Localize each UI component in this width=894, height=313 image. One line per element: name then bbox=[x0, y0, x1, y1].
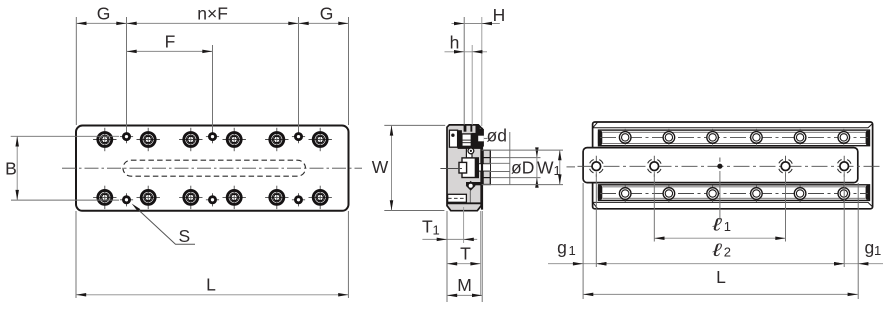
svg-text:h: h bbox=[450, 33, 460, 53]
dimension g1 right bbox=[834, 238, 883, 266]
bottom rail inner edge lines bbox=[603, 186, 866, 188]
counterbore hole A4 bbox=[223, 128, 246, 151]
counterbore hole A2 bbox=[137, 128, 160, 151]
body right edge bbox=[481, 128, 483, 210]
svg-text:g: g bbox=[557, 238, 567, 258]
dimension g1 left bbox=[548, 238, 607, 266]
dimension G left bbox=[76, 4, 126, 132]
dimension F bbox=[127, 32, 213, 132]
counterbore hole A7 bbox=[93, 186, 116, 209]
svg-text:G: G bbox=[97, 4, 111, 24]
center insert bbox=[459, 162, 467, 173]
dimension W bbox=[372, 125, 445, 210]
side block bore (white) bbox=[475, 164, 491, 171]
carriage plate bbox=[583, 148, 858, 183]
rail hole R8 bbox=[663, 185, 675, 202]
carriage centerline bbox=[578, 165, 880, 167]
svg-text:1: 1 bbox=[433, 223, 440, 238]
rail hole R6 bbox=[838, 129, 850, 146]
carriage center point bbox=[717, 164, 722, 169]
plate outline bbox=[76, 126, 349, 211]
side block counterbore lines bbox=[483, 157, 490, 159]
svg-text:1: 1 bbox=[569, 243, 576, 258]
svg-text:B: B bbox=[5, 159, 17, 179]
svg-text:L: L bbox=[206, 274, 216, 294]
dimension B bbox=[5, 136, 119, 200]
carriage hole M1 bbox=[589, 156, 603, 177]
svg-text:n×F: n×F bbox=[197, 4, 228, 24]
bottom rib line bbox=[447, 202, 481, 204]
section body bbox=[447, 125, 481, 211]
svg-text:W: W bbox=[537, 158, 554, 178]
counterbore hole A8 bbox=[137, 186, 160, 209]
leader S bbox=[130, 202, 195, 246]
set screw pocket bbox=[449, 130, 457, 147]
housing top chamfer line bbox=[593, 124, 873, 128]
rail hole R9 bbox=[707, 185, 719, 202]
dimension l1 bbox=[654, 171, 785, 242]
counterbore hole A5 bbox=[265, 128, 288, 151]
small hole S3 bbox=[292, 130, 305, 143]
counterbore hole A12 bbox=[309, 186, 332, 209]
rail hole R1 bbox=[619, 129, 631, 146]
svg-text:T: T bbox=[422, 217, 433, 237]
rail hole R3 bbox=[707, 129, 719, 146]
svg-text:W: W bbox=[372, 157, 389, 177]
upper ledge bbox=[458, 147, 482, 149]
rail hole R11 bbox=[794, 185, 806, 202]
svg-text:H: H bbox=[493, 5, 506, 25]
svg-text:M: M bbox=[457, 275, 472, 295]
upper ball bbox=[468, 148, 474, 154]
dimension h bbox=[445, 33, 488, 125]
svg-text:øD: øD bbox=[511, 158, 534, 178]
bottom rail left end cap bbox=[598, 185, 602, 200]
top rail centerline bbox=[600, 136, 868, 138]
small hole S5 bbox=[206, 193, 219, 206]
hidden screw line bbox=[469, 191, 471, 203]
housing outline bbox=[593, 122, 873, 209]
lower roller bbox=[466, 181, 476, 191]
svg-text:ℓ: ℓ bbox=[712, 240, 724, 260]
dimension n×F bbox=[127, 4, 299, 132]
housing bottom chamfer line bbox=[593, 202, 873, 206]
rail hole R2 bbox=[663, 129, 675, 146]
lower ledge bbox=[466, 182, 481, 185]
rail hole R5 bbox=[794, 129, 806, 146]
svg-text:G: G bbox=[320, 4, 334, 24]
svg-text:L: L bbox=[716, 267, 726, 287]
section centerline tick bbox=[440, 168, 462, 170]
rail hole R4 bbox=[751, 129, 763, 146]
bottom rail centerline bbox=[600, 193, 868, 195]
label ød bbox=[484, 126, 507, 146]
top rail right end cap bbox=[866, 131, 870, 146]
hidden slot (dashed) bbox=[123, 160, 306, 176]
carriage hole M3 bbox=[778, 156, 792, 177]
svg-text:1: 1 bbox=[554, 163, 561, 178]
rail hole R10 bbox=[751, 185, 763, 202]
lower thread hole bbox=[448, 194, 467, 202]
svg-text:ℓ: ℓ bbox=[712, 214, 724, 234]
dimension L (right view) bbox=[583, 183, 858, 299]
cross screw bbox=[462, 134, 471, 146]
svg-text:ød: ød bbox=[487, 126, 507, 146]
center block bbox=[462, 158, 478, 178]
bottom rail body bbox=[599, 185, 870, 201]
counterbore hole A1 bbox=[93, 128, 116, 151]
dimension l2 bbox=[596, 172, 844, 267]
counterbore hole A3 bbox=[179, 128, 202, 151]
counterbore hole A11 bbox=[265, 186, 288, 209]
centerline dash before carriage bbox=[567, 166, 576, 168]
svg-text:S: S bbox=[179, 226, 191, 246]
top rail body bbox=[599, 130, 870, 146]
svg-text:1: 1 bbox=[874, 243, 881, 258]
carriage hole M2 bbox=[647, 156, 661, 177]
top slot bars bbox=[464, 125, 467, 131]
dimension T bbox=[447, 211, 481, 302]
rail hole R12 bbox=[838, 185, 850, 202]
dimension øD bbox=[491, 147, 541, 187]
dimension M bbox=[447, 211, 482, 302]
svg-text:T: T bbox=[460, 244, 471, 264]
svg-text:g: g bbox=[865, 238, 875, 258]
dimension L (left view) bbox=[76, 211, 348, 298]
carriage hole M4 bbox=[837, 156, 851, 177]
dimension T1 bbox=[422, 207, 477, 243]
center channel bbox=[466, 147, 472, 158]
small hole S4 bbox=[120, 193, 133, 206]
rail hole R7 bbox=[619, 185, 631, 202]
screw head (ød) bbox=[477, 129, 484, 147]
top rail inner edge lines bbox=[603, 131, 866, 133]
bottom rail right end cap bbox=[866, 185, 870, 200]
small hole S2 bbox=[206, 130, 219, 143]
dimension W1 bbox=[482, 150, 563, 185]
counterbore hole A10 bbox=[223, 186, 246, 209]
ød extension bbox=[509, 132, 511, 185]
W1 side block bbox=[483, 150, 490, 184]
plate centerline bbox=[62, 167, 362, 169]
dimension G right bbox=[299, 4, 349, 126]
counterbore hole A9 bbox=[179, 186, 202, 209]
dimension H bbox=[452, 5, 506, 126]
small hole S1 bbox=[120, 130, 133, 143]
svg-text:1: 1 bbox=[724, 219, 731, 234]
small hole S6 bbox=[292, 193, 305, 206]
top rail left end cap bbox=[598, 131, 602, 146]
svg-text:2: 2 bbox=[724, 245, 731, 260]
svg-text:F: F bbox=[165, 32, 176, 52]
counterbore hole A6 bbox=[309, 128, 332, 151]
